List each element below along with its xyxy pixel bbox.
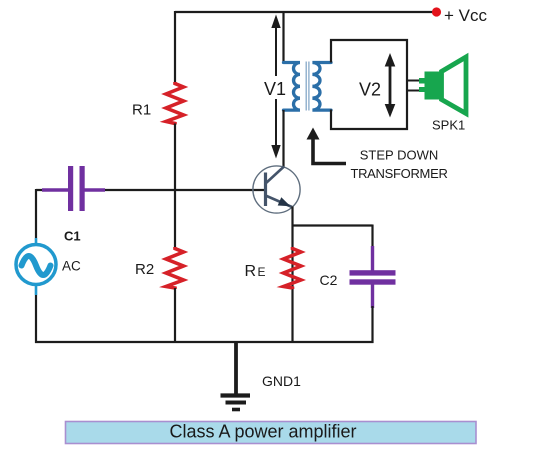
- wire: base wire C1 to transistor base: [105, 189, 266, 191]
- capacitor C2 lead upper: [371, 246, 374, 271]
- ground GND1 bar 1: [221, 393, 251, 397]
- step-down transformer callout arrow: [307, 128, 347, 164]
- svg-text:C2: C2: [320, 272, 338, 288]
- svg-text:V2: V2: [359, 80, 381, 100]
- transistor Q1 base bar: [264, 173, 267, 207]
- wire: ground rail: [35, 341, 374, 343]
- wire: AC source to ground rail: [35, 295, 37, 343]
- svg-text:E: E: [258, 265, 266, 279]
- wire: blue lead from AC source bottom: [35, 283, 38, 295]
- transformer V1 primary winding: [284, 63, 301, 111]
- capacitor C2 lead lower: [371, 285, 374, 309]
- svg-text:SPK1: SPK1: [432, 118, 465, 133]
- capacitor C1 lead left: [42, 188, 68, 192]
- resistor R1: [166, 82, 184, 125]
- wire: speaker lead upper: [407, 80, 421, 82]
- transistor Q1 collector stroke: [266, 167, 285, 184]
- V2 load box: [331, 40, 407, 129]
- ground GND1 bar 2: [226, 401, 247, 405]
- svg-text:GND1: GND1: [262, 373, 301, 389]
- resistor R2: [166, 247, 184, 289]
- label V1 (white backed): [262, 76, 289, 99]
- wire: C2 branch upper black: [371, 225, 373, 249]
- title box: [66, 422, 477, 444]
- wire: transformer bottom to transistor collector: [282, 110, 284, 167]
- capacitor C2 plates: [350, 270, 396, 284]
- AC source V3 circle: [16, 245, 56, 285]
- capacitor C1 lead right: [85, 188, 106, 192]
- ground GND1 stem: [234, 342, 238, 394]
- svg-text:AC: AC: [62, 259, 81, 274]
- transistor Q1 emitter arrow: [278, 197, 291, 206]
- wire: primary branch from top rail to transformer: [282, 11, 284, 63]
- wire: +Vcc top rail: [175, 11, 434, 13]
- wire: emitter down to ground rail: [291, 207, 293, 344]
- wire: C2 branch lower black to ground rail: [371, 306, 373, 343]
- wire: emitter to C2 branch: [292, 224, 373, 226]
- svg-text:STEP DOWN: STEP DOWN: [360, 148, 439, 163]
- transformer core lines: [305, 62, 307, 111]
- speaker SPK1: [419, 57, 466, 114]
- transistor Q1 emitter stroke: [266, 196, 293, 208]
- node +Vcc terminal dot: [432, 7, 441, 16]
- svg-text:R1: R1: [132, 102, 151, 119]
- svg-text:V1: V1: [264, 79, 286, 99]
- wire: speaker lead lower: [407, 90, 421, 92]
- V2 measurement arrow (double headed): [385, 53, 396, 118]
- svg-text:C1: C1: [64, 229, 81, 244]
- wire: R2 bottom to ground rail: [174, 288, 176, 343]
- wire: top rail to R1: [174, 11, 176, 83]
- wire: R1 bottom to R2 top (through base junction): [174, 124, 176, 249]
- AC source sine wave: [22, 256, 51, 275]
- wire: base wire left segment (AC corner to C1): [36, 189, 69, 191]
- resistor RE: [284, 247, 302, 289]
- svg-text:Class A power amplifier: Class A power amplifier: [169, 422, 356, 442]
- wire: C1 corner down to AC source: [35, 189, 37, 238]
- ground GND1 bar 3: [232, 408, 240, 412]
- transistor Q1 circle: [253, 166, 300, 213]
- transformer V2 secondary winding: [312, 63, 331, 111]
- capacitor C1 plates: [68, 166, 85, 211]
- svg-text:TRANSFORMER: TRANSFORMER: [350, 166, 447, 181]
- V1 measurement arrow (double headed): [271, 15, 280, 159]
- svg-text:R: R: [245, 263, 257, 280]
- wire: blue lead into AC source top: [35, 238, 38, 246]
- svg-text:R2: R2: [135, 261, 154, 278]
- svg-text:+ Vcc: + Vcc: [444, 6, 487, 25]
